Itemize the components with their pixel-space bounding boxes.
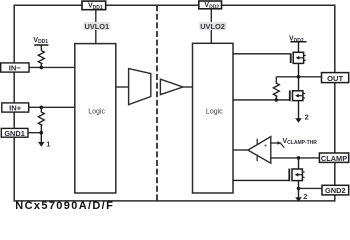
svg-text:VDD2: VDD2 xyxy=(204,2,219,10)
svg-text:VDD1: VDD1 xyxy=(33,37,48,45)
svg-text:GND2: GND2 xyxy=(325,186,346,195)
svg-text:1: 1 xyxy=(46,140,50,149)
svg-text:VCLAMP-THR: VCLAMP-THR xyxy=(283,138,318,146)
svg-text:CLAMP: CLAMP xyxy=(321,154,347,163)
svg-text:IN−: IN− xyxy=(9,64,22,73)
svg-text:GND1: GND1 xyxy=(4,129,25,138)
svg-text:UVLO2: UVLO2 xyxy=(200,22,225,31)
svg-text:Logic: Logic xyxy=(206,109,223,116)
svg-text:NCx57090A/D/F: NCx57090A/D/F xyxy=(15,200,114,209)
svg-text:IN+: IN+ xyxy=(9,104,22,113)
svg-text:VDD1: VDD1 xyxy=(88,3,103,11)
svg-text:2: 2 xyxy=(303,192,307,201)
svg-text:+: + xyxy=(264,144,268,150)
svg-text:2: 2 xyxy=(305,112,309,121)
svg-text:OUT: OUT xyxy=(327,74,343,83)
svg-text:VDD2: VDD2 xyxy=(289,36,304,44)
svg-text:Logic: Logic xyxy=(88,109,105,116)
svg-text:UVLO1: UVLO1 xyxy=(85,22,110,31)
